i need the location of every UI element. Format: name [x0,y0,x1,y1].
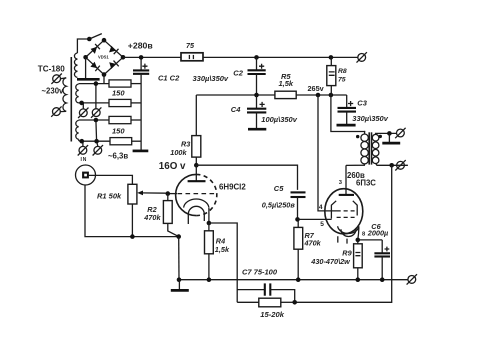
svg-text:150: 150 [112,126,125,135]
svg-text:330µ\350v: 330µ\350v [352,114,388,123]
svg-text:IN: IN [81,157,88,163]
svg-text:VDS1: VDS1 [98,55,109,60]
svg-text:15-20k: 15-20k [260,310,284,319]
svg-text:C3: C3 [357,99,367,108]
svg-text:R8: R8 [338,68,347,75]
svg-text:265v: 265v [308,84,325,93]
svg-text:5: 5 [320,221,324,228]
svg-text:C4: C4 [231,105,241,114]
svg-text:4: 4 [319,204,323,211]
svg-text:C1 C2: C1 C2 [158,74,180,83]
svg-text:R1 50k: R1 50k [97,192,122,201]
svg-text:C5: C5 [274,184,284,193]
svg-text:C2: C2 [233,69,243,78]
svg-text:6Н9Сl2: 6Н9Сl2 [219,182,246,191]
svg-text:150: 150 [112,89,125,98]
svg-text:330µ\350v: 330µ\350v [193,74,229,83]
svg-text:ТС-180: ТС-180 [38,64,65,73]
svg-text:100k: 100k [170,148,187,157]
svg-text:6П3С: 6П3С [356,179,376,188]
svg-text:1,5k: 1,5k [279,79,294,88]
svg-text:+280в: +280в [128,41,153,51]
svg-text:430-470\2w: 430-470\2w [310,257,351,266]
svg-text:470k: 470k [304,239,322,248]
svg-text:C7 75-100: C7 75-100 [242,267,278,276]
svg-text:0,5µ\250в: 0,5µ\250в [262,200,296,209]
svg-text:470k: 470k [143,213,161,222]
svg-text:75: 75 [186,41,195,50]
svg-text:~6,3в: ~6,3в [108,152,128,161]
svg-text:100µ\350v: 100µ\350v [261,115,297,124]
svg-text:1,5k: 1,5k [215,245,230,254]
svg-text:~230v: ~230v [42,87,65,96]
svg-text:2000µ: 2000µ [367,228,389,237]
svg-text:75: 75 [338,76,346,83]
svg-text:16O v: 16O v [159,161,186,172]
